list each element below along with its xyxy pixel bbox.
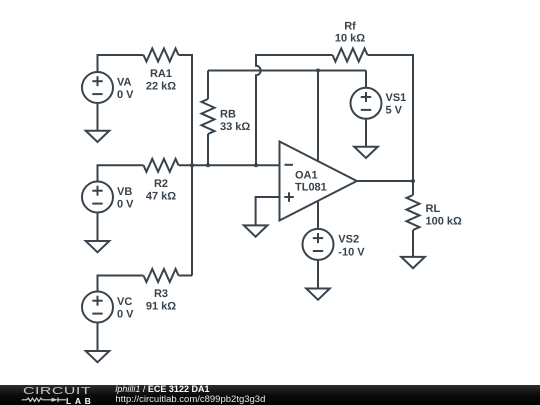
svg-text:R3: R3: [154, 288, 168, 300]
svg-text:VC: VC: [117, 296, 132, 308]
svg-text:0 V: 0 V: [117, 89, 134, 101]
svg-text:VB: VB: [117, 186, 132, 198]
svg-text:VA: VA: [117, 77, 132, 89]
svg-text:R2: R2: [154, 178, 168, 190]
svg-text:33 kΩ: 33 kΩ: [220, 121, 250, 133]
svg-text:VS1: VS1: [386, 92, 407, 104]
svg-text:22 kΩ: 22 kΩ: [146, 81, 176, 93]
svg-text:TL081: TL081: [295, 182, 327, 194]
svg-text:Rf: Rf: [344, 21, 356, 33]
svg-text:VS2: VS2: [338, 234, 359, 246]
svg-text:RL: RL: [426, 203, 441, 215]
svg-text:-10 V: -10 V: [338, 247, 365, 259]
svg-text:10 kΩ: 10 kΩ: [335, 33, 365, 45]
svg-text:47 kΩ: 47 kΩ: [146, 190, 176, 202]
svg-text:0 V: 0 V: [117, 199, 134, 211]
svg-text:RB: RB: [220, 109, 236, 121]
svg-text:0 V: 0 V: [117, 309, 134, 321]
svg-text:OA1: OA1: [295, 169, 318, 181]
svg-text:91 kΩ: 91 kΩ: [146, 301, 176, 313]
svg-text:RA1: RA1: [150, 68, 172, 80]
svg-text:5 V: 5 V: [386, 105, 403, 117]
svg-text:100 kΩ: 100 kΩ: [426, 215, 463, 227]
